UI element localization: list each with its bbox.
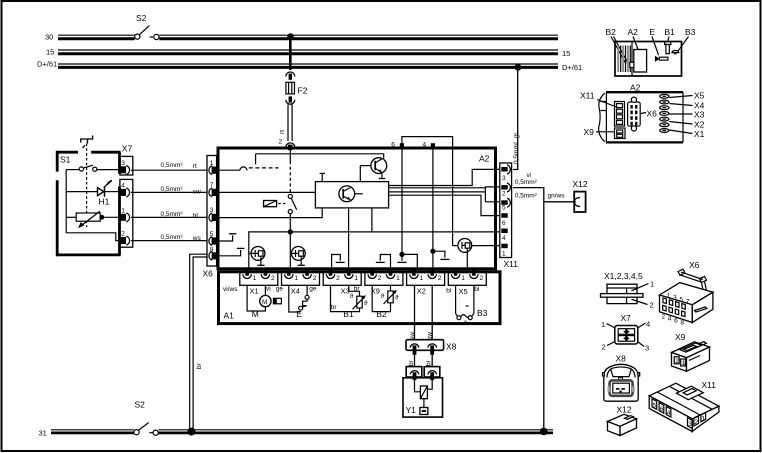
svg-text:X8: X8 <box>446 342 457 352</box>
connector X3 <box>323 269 361 296</box>
svg-text:B2: B2 <box>606 27 617 37</box>
svg-text:5: 5 <box>502 205 506 212</box>
dashed control link <box>86 144 88 228</box>
svg-text:X9: X9 <box>675 332 686 342</box>
svg-text:sw: sw <box>409 332 416 340</box>
svg-text:M: M <box>262 299 267 306</box>
svg-text:X12: X12 <box>573 179 588 189</box>
svg-text:2: 2 <box>378 275 382 282</box>
actuator symbol above S1 <box>80 135 93 148</box>
svg-text:3: 3 <box>502 175 506 182</box>
svg-text:0,5mm²: 0,5mm² <box>161 211 184 218</box>
svg-text:1: 1 <box>702 416 706 423</box>
internal switch on rt row <box>216 154 279 171</box>
connector X4 <box>282 269 320 296</box>
connector X5 <box>448 269 486 296</box>
svg-text:1: 1 <box>396 275 400 282</box>
svg-text:15: 15 <box>46 48 54 57</box>
bus D+/61 <box>37 60 582 72</box>
svg-text:5: 5 <box>679 297 683 304</box>
svg-text:B3: B3 <box>477 308 488 318</box>
svg-text:1: 1 <box>210 160 214 167</box>
wire T1 to hybrid <box>359 166 361 182</box>
bus 15 <box>46 48 570 59</box>
node on bus 31 <box>187 428 195 436</box>
wire bl row to hybrid bottom <box>216 208 322 218</box>
lamp H1 <box>66 180 119 207</box>
wire br X6 pin8 to bus 31 <box>190 254 208 429</box>
sensor symbol S-b <box>291 247 305 266</box>
svg-text:8: 8 <box>210 246 214 253</box>
svg-text:X5: X5 <box>694 91 705 101</box>
glow plug E in assembly <box>655 56 668 62</box>
svg-text:A2: A2 <box>628 27 639 37</box>
plug X9 3D <box>672 332 710 371</box>
connector X6 <box>203 156 218 279</box>
plug X8 3D <box>603 354 640 402</box>
connector X2 <box>407 269 445 296</box>
pin 2 socket on A2 top <box>286 143 295 148</box>
valve Y1 <box>403 378 443 417</box>
svg-text:5: 5 <box>210 231 214 238</box>
connector X1 <box>240 269 278 296</box>
node gn/ws on bus 31 <box>540 428 548 436</box>
Y1 plug right <box>424 367 440 381</box>
svg-text:31: 31 <box>39 429 47 438</box>
svg-text:Y1: Y1 <box>406 405 417 415</box>
svg-text:1: 1 <box>650 280 654 289</box>
svg-text:S2: S2 <box>135 400 146 410</box>
control unit A2 <box>218 148 496 269</box>
svg-text:gn/ws: gn/ws <box>548 192 566 199</box>
svg-text:2: 2 <box>502 191 506 198</box>
svg-text:0,5mm² gr: 0,5mm² gr <box>513 132 520 164</box>
svg-text:X8: X8 <box>616 354 627 364</box>
wire gr D+/61 to X11 pin3 <box>513 67 520 169</box>
control unit A2 rear view <box>599 83 683 143</box>
fuse F2 <box>286 82 308 95</box>
relay coil <box>264 201 287 207</box>
bus 31 <box>39 429 554 438</box>
svg-text:X3: X3 <box>694 110 705 120</box>
svg-text:2: 2 <box>271 275 275 282</box>
svg-text:ϑ: ϑ <box>381 293 385 300</box>
svg-text:3: 3 <box>210 207 214 214</box>
svg-text:sw: sw <box>427 332 434 340</box>
svg-text:4: 4 <box>668 316 672 323</box>
svg-text:1: 1 <box>294 275 298 282</box>
svg-text:B2: B2 <box>376 309 387 319</box>
svg-text:0,5mm²: 0,5mm² <box>161 234 184 241</box>
svg-text:2: 2 <box>480 275 484 282</box>
svg-text:X11: X11 <box>580 91 595 101</box>
hybrid outputs to X11 <box>389 169 499 215</box>
wire gn/ws X11 pin2 to X12 and bus 31 <box>513 188 576 430</box>
svg-text:2: 2 <box>313 275 317 282</box>
wire rt S1 to A2 <box>131 162 208 170</box>
internal wire from pin2 <box>289 150 291 194</box>
stub X6 pin5 internal <box>217 234 237 241</box>
svg-text:B1: B1 <box>665 27 676 37</box>
bus 30 <box>45 33 558 42</box>
svg-text:X4: X4 <box>291 287 300 296</box>
svg-text:X6: X6 <box>203 269 214 279</box>
Y1 plug left <box>406 367 422 381</box>
svg-text:7: 7 <box>210 182 214 189</box>
svg-text:2: 2 <box>438 275 442 282</box>
heater assembly outline <box>615 42 682 77</box>
svg-text:2: 2 <box>121 231 125 238</box>
svg-text:4: 4 <box>502 235 506 242</box>
sensor B3 in assembly <box>672 51 679 55</box>
svg-text:6: 6 <box>391 142 395 149</box>
svg-text:1: 1 <box>461 275 465 282</box>
svg-text:vi: vi <box>527 172 532 179</box>
flat plug X1..X5 3D <box>601 271 655 310</box>
svg-text:7: 7 <box>686 298 690 305</box>
plug X7 3D <box>601 313 650 353</box>
svg-text:A2: A2 <box>630 83 641 93</box>
glow plug E <box>289 285 309 319</box>
relay contact <box>288 194 297 268</box>
wire sw S1 to A2 <box>131 186 208 195</box>
svg-text:X1: X1 <box>250 287 259 296</box>
svg-text:F2: F2 <box>298 86 308 96</box>
svg-text:2: 2 <box>694 419 698 426</box>
svg-text:X11: X11 <box>702 380 717 390</box>
svg-text:2: 2 <box>336 275 340 282</box>
svg-text:A2: A2 <box>479 154 490 164</box>
svg-text:X12: X12 <box>617 405 632 415</box>
svg-text:2: 2 <box>675 358 679 365</box>
node on D+/61 <box>515 64 522 71</box>
svg-text:br: br <box>408 359 415 366</box>
wires hybrid to bottom pins <box>348 208 350 269</box>
sensor B1 in assembly <box>665 42 671 54</box>
svg-text:1: 1 <box>121 207 125 214</box>
svg-text:3: 3 <box>688 421 692 428</box>
connector X7 <box>119 144 133 248</box>
switch contact in S1 <box>66 165 119 171</box>
wire labels vi <box>515 172 538 186</box>
svg-text:B1: B1 <box>343 309 354 319</box>
wire fuse to A2 pin2 <box>279 104 293 145</box>
svg-text:rt: rt <box>193 163 197 170</box>
heater assembly view labels <box>606 27 696 64</box>
motor M <box>247 285 281 319</box>
wire seals X1-X5 in A2 view <box>660 91 705 140</box>
svg-text:bl: bl <box>474 286 480 293</box>
svg-text:B3: B3 <box>685 27 696 37</box>
svg-text:X2: X2 <box>417 287 426 296</box>
connector X8 <box>406 340 457 355</box>
svg-text:1: 1 <box>601 320 605 329</box>
svg-text:4: 4 <box>121 183 125 190</box>
svg-text:bl: bl <box>426 360 433 366</box>
svg-text:bl: bl <box>193 213 199 220</box>
switch S2 (top) <box>135 13 159 40</box>
wires X8 to Y1 <box>408 355 433 368</box>
node on bus 30 <box>287 33 294 40</box>
svg-text:1: 1 <box>354 275 358 282</box>
svg-text:X9: X9 <box>584 127 595 137</box>
control unit in assembly <box>630 50 647 73</box>
svg-text:0,5mm²: 0,5mm² <box>161 186 184 193</box>
switch S2 (bottom) <box>134 400 158 436</box>
connector X12 <box>573 179 588 212</box>
svg-text:br: br <box>331 304 338 311</box>
svg-text:X7: X7 <box>621 313 632 323</box>
stub contact above X9 <box>376 255 391 270</box>
svg-text:15: 15 <box>562 49 570 58</box>
internal bus wire <box>249 232 499 269</box>
svg-text:ge: ge <box>276 285 284 292</box>
pin 6 (A2 top) <box>391 142 404 149</box>
svg-text:0,5mm²: 0,5mm² <box>161 162 184 169</box>
switch box S1 <box>57 151 121 256</box>
svg-text:A1: A1 <box>224 311 235 321</box>
svg-text:2: 2 <box>650 301 654 310</box>
stub contact above X3 <box>332 255 345 270</box>
svg-text:0,5mm²: 0,5mm² <box>515 192 538 199</box>
svg-text:ge: ge <box>309 285 317 292</box>
svg-text:E: E <box>650 27 656 37</box>
svg-text:3: 3 <box>121 160 125 167</box>
stub X6 pin8 internal <box>217 248 245 255</box>
svg-text:rt: rt <box>279 130 286 134</box>
svg-text:6: 6 <box>660 406 664 413</box>
svg-text:5: 5 <box>653 402 657 409</box>
connector X9 <box>365 269 403 296</box>
svg-text:ϑ: ϑ <box>350 293 354 300</box>
svg-text:X5: X5 <box>459 287 468 296</box>
svg-text:bl: bl <box>446 287 452 294</box>
sensor symbol S-a <box>249 247 265 266</box>
svg-text:3: 3 <box>673 295 677 302</box>
svg-text:1: 1 <box>682 360 686 367</box>
sensor symbol S-c <box>453 147 499 268</box>
wire bracket pins 6/4 <box>402 137 453 147</box>
svg-text:ws: ws <box>192 235 202 242</box>
connector below F2 <box>286 100 295 105</box>
X9 profile in A2 view <box>584 127 626 139</box>
wire bus30 to fuse <box>289 37 292 70</box>
svg-text:X1: X1 <box>694 129 705 139</box>
svg-text:2: 2 <box>662 314 666 321</box>
potentiometer in S1 <box>66 211 119 228</box>
heater unit A1 <box>219 272 501 324</box>
X11 profile in A2 view <box>580 91 625 127</box>
svg-text:0,5mm²: 0,5mm² <box>515 179 538 186</box>
svg-text:X11: X11 <box>504 259 519 269</box>
svg-text:8: 8 <box>680 319 684 326</box>
svg-text:1: 1 <box>502 251 506 258</box>
wire bl S1 to A2 <box>131 211 208 220</box>
svg-text:30: 30 <box>45 33 53 42</box>
svg-text:2: 2 <box>279 139 283 146</box>
svg-text:2: 2 <box>602 343 606 352</box>
svg-text:X6: X6 <box>689 260 700 270</box>
svg-text:X7: X7 <box>122 144 133 154</box>
overheat switch B3 <box>456 285 488 327</box>
svg-text:3: 3 <box>645 344 649 353</box>
connector X11 <box>500 163 518 269</box>
svg-text:vi/ws: vi/ws <box>223 286 238 293</box>
svg-text:br: br <box>196 362 203 369</box>
svg-text:1: 1 <box>667 293 671 300</box>
connector above F2 <box>286 72 295 77</box>
svg-text:6: 6 <box>502 220 506 227</box>
wire ws S1 to A2 <box>131 234 208 242</box>
wire to T1 <box>256 154 384 159</box>
svg-text:6: 6 <box>674 317 678 324</box>
svg-text:S2: S2 <box>136 13 147 23</box>
svg-text:ϑ: ϑ <box>464 320 468 327</box>
wire pin4 to X2.2 <box>430 147 449 269</box>
svg-text:ϑ: ϑ <box>364 300 368 307</box>
svg-text:E: E <box>296 309 302 319</box>
svg-text:D+/61: D+/61 <box>37 60 57 69</box>
svg-text:1: 1 <box>253 275 257 282</box>
temp sensor B1 <box>331 285 369 319</box>
plug X11 3D <box>649 380 719 432</box>
hybrid circuit block <box>315 173 388 208</box>
svg-text:X1,2,3,4,5: X1,2,3,4,5 <box>604 271 643 281</box>
X6 socket in A2 view <box>628 97 658 131</box>
transistor T2 <box>339 186 363 202</box>
svg-text:1: 1 <box>420 275 424 282</box>
svg-text:4: 4 <box>423 142 427 149</box>
wire to X7 pin2 <box>66 233 119 241</box>
housing plug X6 3D <box>660 260 713 326</box>
transistor T1 <box>360 158 386 179</box>
svg-text:4: 4 <box>646 320 650 329</box>
svg-text:X6: X6 <box>647 109 658 119</box>
svg-text:vi: vi <box>266 285 271 292</box>
svg-text:H1: H1 <box>99 197 110 207</box>
svg-text:X2: X2 <box>694 120 705 130</box>
svg-text:4: 4 <box>667 410 671 417</box>
svg-text:S1: S1 <box>60 155 71 165</box>
wire sw row into hybrid <box>216 191 315 193</box>
svg-text:sw: sw <box>193 188 201 195</box>
pin 4 (A2 top) <box>423 142 436 149</box>
wire S1 internal <box>65 170 67 233</box>
svg-text:D+/61: D+/61 <box>562 63 582 72</box>
node relay to bus <box>288 229 293 234</box>
plug X12 3D <box>608 405 637 436</box>
wires X2 to X8 <box>409 285 434 341</box>
svg-text:M: M <box>252 309 259 319</box>
temp sensor B2 <box>372 285 399 319</box>
svg-text:ϑ: ϑ <box>395 295 399 302</box>
wire pin6 to X2.1 <box>398 147 418 269</box>
